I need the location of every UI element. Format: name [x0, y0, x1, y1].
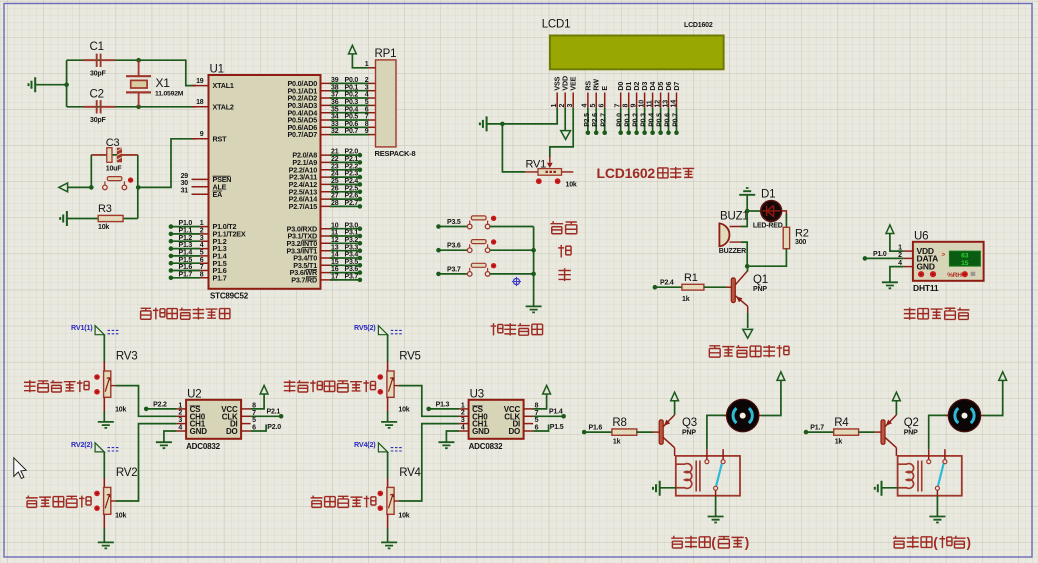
wire lever to ground: [936, 490, 938, 495]
svg-text:1k: 1k: [613, 438, 621, 445]
ADC0832 U2 body: [186, 400, 241, 439]
svg-text:Q2: Q2: [904, 417, 919, 429]
pin P3.6 (16) wire and net label: [321, 272, 338, 274]
svg-text:P3.7: P3.7: [345, 274, 359, 281]
svg-text:P0.0: P0.0: [617, 113, 624, 127]
pin LCD D3 (10): [644, 93, 646, 108]
svg-text:300: 300: [795, 239, 806, 246]
svg-text:LCD1602: LCD1602: [684, 22, 713, 29]
pin U2 VCC (8): [241, 408, 251, 410]
svg-text:C2: C2: [90, 88, 104, 100]
svg-text:(: (: [711, 535, 716, 550]
svg-text:22: 22: [331, 156, 339, 163]
wire P1.6 to R8: [582, 430, 587, 435]
wire R8 to Q3 base: [637, 431, 653, 433]
pin U3 VCC (8): [524, 408, 534, 410]
ADC0832 U3 body: [469, 400, 524, 439]
svg-text:): ): [967, 535, 971, 550]
svg-text:RV2: RV2: [116, 467, 138, 479]
svg-text:P2.7: P2.7: [601, 113, 608, 127]
svg-text:3: 3: [461, 417, 465, 424]
pin XTAL2 (18): [192, 106, 209, 108]
pin U2 DO (6): [241, 430, 251, 432]
svg-text:R2: R2: [795, 227, 809, 239]
svg-text:P3.6: P3.6: [345, 266, 359, 273]
title (RV3 adjust): [24, 380, 36, 392]
svg-text:PNP: PNP: [682, 429, 696, 436]
svg-text:D1: D1: [761, 189, 775, 201]
pin P2.5 (26) wire and net label: [321, 191, 338, 193]
pin LCD D6 (13): [668, 93, 670, 108]
MCU U1 STC89C52 body: [209, 75, 321, 289]
pin P2.2 (23) wire and net label: [321, 169, 338, 171]
svg-text:27: 27: [331, 193, 339, 200]
svg-text:P0.2: P0.2: [633, 113, 640, 127]
svg-text:RV4: RV4: [399, 467, 421, 479]
pin P1.2 (3) with wire and net label: [192, 240, 209, 242]
relay common contact: [706, 449, 708, 459]
wire RV2 bottom to ground: [103, 514, 105, 529]
pin P3.7 (17) wire and net label: [321, 279, 338, 281]
svg-text:17: 17: [331, 274, 339, 281]
pin LCD VSS (1): [556, 93, 558, 108]
LED D1 LED-RED: [761, 201, 782, 222]
power terminal above U2 VCC: [260, 385, 268, 394]
wire RV4 bottom to ground: [387, 514, 389, 529]
DHT11 buttons and %RH: [918, 271, 924, 277]
pin U2 GND (4): [177, 430, 187, 432]
power terminal (down arrow) below Q1: [743, 329, 753, 338]
wire LCD D1 net P0.1: [628, 108, 630, 133]
pin LCD RW (5): [595, 93, 597, 108]
wire U3 CS net P1.3: [426, 407, 431, 412]
relay coil: [898, 464, 914, 489]
svg-text:DO: DO: [508, 427, 520, 436]
power terminal above U3 VCC: [543, 385, 551, 394]
wire U2 VCC to power: [251, 394, 265, 409]
reset push button: [103, 185, 108, 190]
svg-text:24: 24: [331, 171, 339, 178]
svg-text:11: 11: [331, 230, 338, 237]
pin P3.1 (11) wire and net label: [321, 235, 338, 237]
svg-text:LED-RED: LED-RED: [753, 223, 783, 230]
svg-text:10k: 10k: [115, 407, 126, 414]
wire BUZ1 bottom to emitter node: [741, 242, 747, 266]
power terminal (down arrow) at VDD: [561, 131, 571, 140]
transistor Q1 PNP: [731, 278, 735, 303]
wire LCD D6 net P0.6: [668, 108, 670, 133]
RV1 adjust buttons: [536, 178, 542, 184]
svg-text:1: 1: [200, 220, 204, 227]
svg-text:3: 3: [365, 84, 369, 91]
relay coil: [676, 464, 692, 489]
svg-text:10k: 10k: [115, 512, 126, 519]
svg-text:1: 1: [365, 61, 369, 68]
title: set (设置): [551, 221, 564, 234]
svg-text:P0.4: P0.4: [649, 113, 656, 127]
title: sound-light alarm (声光报警电路): [709, 346, 720, 357]
svg-text:P2.4: P2.4: [660, 280, 674, 287]
ground below U6: [882, 282, 898, 288]
svg-text:10k: 10k: [566, 181, 577, 188]
svg-text:2: 2: [200, 228, 204, 235]
svg-text:P2.7/A15: P2.7/A15: [289, 202, 318, 211]
pin U2 CS (1): [177, 408, 187, 410]
power terminal above motor: [777, 372, 785, 381]
pin LCD D4 (11): [652, 93, 654, 108]
pin LCD D2 (9): [636, 93, 638, 108]
pin LCD RS (4): [587, 93, 589, 108]
wire LCD D0 net P0.0: [620, 108, 622, 133]
svg-text:P1.0: P1.0: [179, 220, 193, 227]
svg-text:P1.7: P1.7: [179, 271, 193, 278]
pin U2 CH1 (3): [177, 423, 187, 425]
svg-text:38: 38: [331, 84, 339, 91]
svg-text:4: 4: [461, 424, 465, 431]
pin P2.6 (27) wire and net label: [321, 198, 338, 200]
reset button actuator marker: [128, 177, 133, 182]
svg-text:63: 63: [961, 253, 969, 260]
svg-text:9: 9: [365, 128, 369, 135]
svg-text:RP1: RP1: [375, 48, 397, 60]
wire motor to power: [762, 381, 781, 416]
resistor R3 10k: [67, 218, 138, 220]
pin P3.0 (10) wire and net label: [321, 228, 338, 230]
svg-text:R3: R3: [98, 203, 112, 215]
svg-text:19: 19: [196, 78, 204, 85]
svg-text:26: 26: [331, 185, 339, 192]
svg-text:P2.6: P2.6: [345, 193, 359, 200]
svg-text:P0.1: P0.1: [345, 84, 359, 91]
pin U3 CH1 (3): [459, 423, 469, 425]
svg-text:11: 11: [646, 100, 653, 107]
svg-text:4: 4: [582, 104, 589, 108]
wire R4 to Q2 base: [859, 431, 875, 433]
title: relay: [893, 536, 905, 548]
svg-text:7: 7: [200, 264, 204, 271]
svg-text:XTAL2: XTAL2: [213, 102, 234, 111]
svg-text:ADC0832: ADC0832: [469, 442, 503, 451]
svg-text:30pF: 30pF: [90, 70, 106, 77]
pin P0.3 (36) wire to RP1 pin 5: [321, 104, 338, 106]
svg-text:4: 4: [178, 424, 182, 431]
svg-text:U1: U1: [210, 64, 224, 76]
power terminal above motor: [999, 372, 1007, 381]
svg-text:P3.0: P3.0: [345, 222, 359, 229]
wire D1 to R2: [782, 211, 787, 215]
svg-text:10k: 10k: [398, 512, 409, 519]
wire to LED D1: [747, 210, 761, 212]
pin P3.3 (13) wire and net label: [321, 250, 338, 252]
node emitter junction: [745, 264, 750, 269]
svg-text:6: 6: [365, 106, 369, 113]
svg-text:GND: GND: [917, 262, 935, 272]
wire U3 DO net P1.5: [533, 425, 549, 432]
ground (left of coil): [875, 481, 882, 496]
pin LCD D1 (8): [628, 93, 630, 108]
wire XTAL1 net from C1: [67, 60, 196, 85]
title: minus (减): [558, 268, 570, 281]
wire flag to RV4: [387, 452, 389, 479]
title: MCU minimal system (单片机最小系统): [141, 308, 151, 319]
relay box: [676, 456, 740, 496]
wire RV3 bottom to ground: [103, 397, 105, 412]
pin P0.7 (32) wire to RP1 pin 9: [321, 134, 338, 136]
pin P1.4 (5) with wire and net label: [192, 255, 209, 257]
svg-text:P2.5: P2.5: [345, 185, 359, 192]
svg-text:2: 2: [461, 410, 465, 417]
relay box: [898, 456, 962, 496]
wire common contact to motor: [929, 415, 949, 449]
transistor Q3 PNP: [659, 420, 663, 445]
pin P0.6 (33) wire to RP1 pin 8: [321, 126, 338, 128]
pin P0.2 (37) wire to RP1 pin 4: [321, 97, 338, 99]
svg-text:10: 10: [331, 222, 339, 229]
pin LCD D5 (12): [660, 93, 662, 108]
pin P1.3 (4) with wire and net label: [192, 248, 209, 250]
pin P2.0 (21) wire and net label: [321, 154, 338, 156]
svg-text:11.0592M: 11.0592M: [155, 91, 184, 98]
capacitor C2: [83, 106, 115, 108]
potentiometer RV1 10k: [549, 156, 551, 163]
svg-text:P0.7: P0.7: [345, 128, 359, 135]
ground below relay: [708, 517, 724, 523]
svg-text:P1.6: P1.6: [179, 264, 193, 271]
wire LCD D7 net P0.7: [676, 108, 678, 133]
wire LCD D2 net P0.2: [636, 108, 638, 133]
svg-text:31: 31: [181, 188, 189, 195]
svg-text:P3.5: P3.5: [345, 259, 359, 266]
svg-text:Q1: Q1: [753, 274, 768, 286]
svg-text:BUZZER: BUZZER: [719, 248, 746, 255]
svg-text:29: 29: [181, 173, 189, 180]
svg-text:2: 2: [559, 104, 566, 108]
svg-text:P1.5: P1.5: [550, 424, 564, 431]
svg-text:1: 1: [551, 104, 558, 108]
svg-text:U2: U2: [187, 388, 201, 400]
title (RV2 adjust): [26, 496, 38, 508]
wire Q2 collector to relay coil: [895, 448, 897, 456]
ground below buttons: [526, 306, 542, 312]
pin P0.1 (38) wire to RP1 pin 3: [321, 90, 338, 92]
svg-text:RV5: RV5: [399, 351, 421, 363]
pin P1.7 (8) with wire and net label: [192, 277, 209, 279]
svg-text:Q3: Q3: [682, 417, 697, 429]
title (RV5 adjust): [284, 380, 296, 392]
svg-text:P2.2: P2.2: [153, 401, 167, 408]
wire U2 DO net P2.0: [251, 425, 267, 432]
svg-text:18: 18: [196, 99, 204, 106]
svg-text:34: 34: [331, 114, 339, 121]
svg-text:9: 9: [630, 104, 637, 108]
pin LCD VEE (3): [572, 93, 574, 108]
svg-text:2: 2: [365, 77, 369, 84]
svg-text:7: 7: [365, 114, 369, 121]
wire flag to RV5: [387, 335, 389, 362]
pin U2 DI (5): [241, 423, 251, 425]
svg-text:RV2(2): RV2(2): [71, 440, 93, 449]
origin marker: [513, 278, 519, 284]
svg-text:39: 39: [331, 77, 339, 84]
wire power to U6 VDD: [890, 234, 904, 251]
svg-text:30: 30: [181, 180, 189, 187]
svg-text:5: 5: [252, 417, 256, 424]
svg-text:P1.6: P1.6: [589, 425, 603, 432]
svg-text:DHT11: DHT11: [913, 283, 939, 293]
svg-text:35: 35: [331, 106, 339, 113]
svg-text:P1.0: P1.0: [873, 251, 887, 258]
ground below U2: [156, 442, 172, 448]
svg-text:P0.5: P0.5: [345, 114, 359, 121]
svg-text:RV5(2): RV5(2): [354, 323, 376, 332]
wire flag to RV3: [103, 335, 105, 362]
power terminal above RP1: [349, 45, 357, 54]
potentiometer RV5 10k: [387, 371, 394, 397]
svg-text:P2.5: P2.5: [584, 113, 591, 127]
pin P1.6 (7) with wire and net label: [192, 270, 209, 272]
svg-text:6: 6: [200, 257, 204, 264]
power terminal above U6: [886, 225, 894, 234]
svg-text:BUZ1: BUZ1: [720, 211, 749, 223]
pin U3 CS (1): [459, 408, 469, 410]
wire Q3 collector to relay coil: [674, 448, 676, 456]
svg-text:P0.1: P0.1: [625, 113, 632, 127]
svg-text:10k: 10k: [98, 224, 109, 231]
wire U3 CLK net P1.4: [533, 415, 564, 417]
pin P3.4 (14) wire and net label: [321, 257, 338, 259]
wire C1-C2 left vertical: [66, 60, 68, 107]
wire button P3.7 to bus: [490, 273, 534, 275]
svg-text:R4: R4: [834, 417, 849, 429]
svg-text:P0.6: P0.6: [665, 113, 672, 127]
svg-text:): ): [745, 535, 749, 550]
wire LCD VDD to power: [564, 108, 566, 131]
wire LCD D4 net P0.4: [652, 108, 654, 133]
wire R2 bottom to emitter node: [747, 249, 786, 267]
svg-text:C3: C3: [106, 137, 120, 149]
svg-text:10k: 10k: [398, 407, 409, 414]
wire U3 VCC to power: [533, 394, 547, 409]
svg-text:PNP: PNP: [753, 286, 767, 293]
svg-text:E: E: [600, 86, 609, 91]
wire XTAL2 net from C2: [67, 106, 196, 108]
resistor R8 1k: [612, 429, 637, 435]
svg-text:ADC0832: ADC0832: [186, 442, 220, 451]
transistor Q2 PNP: [881, 420, 885, 445]
svg-text:P2.1: P2.1: [267, 409, 281, 416]
node RST/button junction: [136, 185, 141, 190]
ground (left of C1/C2): [35, 84, 66, 86]
wire coil bottom to ground: [882, 487, 899, 489]
svg-text:5: 5: [365, 99, 369, 106]
pin ALE (30): [192, 186, 209, 188]
wire LCD P2.6 net: [595, 108, 597, 133]
svg-text:32: 32: [331, 128, 339, 135]
wire U6 GND to ground: [890, 267, 904, 283]
pin LCD D0 (7): [620, 93, 622, 108]
pin P0.5 (34) wire to RP1 pin 7: [321, 119, 338, 121]
wire button P3.5 to bus: [490, 226, 534, 228]
svg-text:P1.2: P1.2: [179, 235, 193, 242]
svg-text:P0.5: P0.5: [657, 113, 664, 127]
svg-text:P2.3: P2.3: [345, 171, 359, 178]
ground below U3: [438, 442, 454, 448]
potentiometer RV2 10k: [104, 487, 111, 514]
svg-text:P2.4: P2.4: [345, 178, 359, 185]
svg-text:P2.2: P2.2: [345, 163, 359, 170]
svg-text:P1.7: P1.7: [213, 273, 227, 282]
relay NO contact: [944, 449, 946, 459]
wire U3 GND to ground: [446, 431, 459, 442]
potentiometer RV4 10k: [387, 487, 394, 514]
svg-text:P3.1: P3.1: [345, 230, 359, 237]
svg-text:RST: RST: [213, 134, 228, 143]
relay common contact: [928, 449, 930, 459]
svg-text:30pF: 30pF: [90, 117, 106, 124]
wire lever to ground: [715, 490, 717, 495]
svg-text:P1.3: P1.3: [436, 401, 450, 408]
wire LCD P2.7 net: [604, 108, 606, 133]
node junction C1/C2/ground: [64, 82, 69, 87]
motor (fan): [724, 415, 762, 417]
wire U2 CS net P2.2: [144, 407, 149, 412]
svg-text:P0.7/AD7: P0.7/AD7: [287, 130, 317, 139]
wire motor to power: [983, 381, 1002, 416]
svg-text:12: 12: [654, 100, 661, 108]
svg-text:5: 5: [200, 249, 204, 256]
wire RV4 wiper to U3 CH1: [399, 424, 459, 501]
wire C3/button loop: [68, 155, 138, 219]
wire Q2 emitter to power: [895, 401, 897, 415]
wire LCD P2.5 net: [587, 108, 589, 133]
pin LCD D7 (14): [676, 93, 678, 108]
capacitor C3 10uF: [91, 154, 138, 156]
pin P1.1 (2) with wire and net label: [192, 233, 209, 235]
pin P3.5 (15) wire and net label: [321, 264, 338, 266]
svg-text:P0.2: P0.2: [345, 92, 359, 99]
svg-text:(: (: [933, 535, 938, 550]
pin P2.1 (22) wire and net label: [321, 161, 338, 163]
crystal X1: [136, 58, 141, 63]
svg-text:3: 3: [567, 104, 574, 108]
svg-text:C1: C1: [90, 41, 104, 53]
svg-text:1: 1: [461, 402, 465, 409]
ground (left of R3): [60, 211, 67, 226]
svg-text:P2.0: P2.0: [267, 424, 281, 431]
pin U2 CH0 (2): [177, 415, 187, 417]
mouse cursor: [14, 458, 26, 479]
ground below RV2: [98, 542, 114, 548]
svg-text:3: 3: [178, 417, 182, 424]
LCD1602 screen LCD1: [550, 36, 724, 70]
wire common contact to motor: [707, 415, 727, 449]
push button P3.5: [436, 224, 441, 229]
pin P0.0 (39) wire to RP1 pin 2: [321, 82, 338, 84]
svg-text:14: 14: [331, 252, 339, 259]
wire RV2 wiper to U2 CH1: [116, 424, 177, 501]
svg-text:2: 2: [178, 410, 182, 417]
svg-text:RV1: RV1: [526, 158, 547, 170]
wire P1.0 to U6 DATA: [863, 256, 868, 261]
pin U3 CH0 (2): [459, 415, 469, 417]
svg-text:8: 8: [200, 271, 204, 278]
svg-text:DO: DO: [226, 427, 238, 436]
capacitor C1: [83, 59, 115, 61]
wire U2 CLK net P2.1: [251, 415, 282, 417]
svg-text:15: 15: [331, 259, 339, 266]
node alarm top junction: [745, 209, 750, 214]
pin P2.7 (28) wire and net label: [321, 205, 338, 207]
